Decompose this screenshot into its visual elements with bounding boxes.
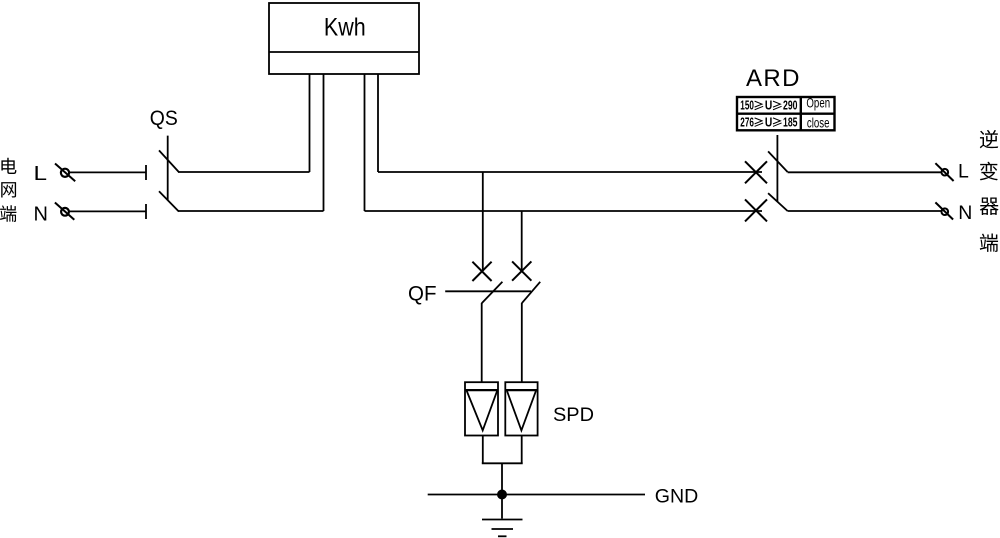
svg-text:QS: QS (150, 107, 178, 130)
svg-text:close: close (807, 114, 830, 130)
svg-text:Kwh: Kwh (324, 14, 366, 42)
svg-text:N: N (34, 203, 48, 225)
svg-text:N: N (958, 202, 972, 224)
svg-text:290: 290 (783, 99, 798, 113)
svg-text:U: U (765, 116, 772, 130)
svg-text:QF: QF (408, 283, 437, 306)
svg-text:276: 276 (740, 116, 754, 130)
svg-text:SPD: SPD (553, 405, 594, 426)
svg-text:150: 150 (740, 99, 754, 113)
svg-text:185: 185 (783, 116, 798, 130)
svg-text:L: L (34, 163, 48, 185)
svg-text:U: U (765, 99, 772, 113)
svg-text:ARD: ARD (746, 65, 800, 92)
svg-text:L: L (958, 161, 969, 183)
svg-text:GND: GND (655, 485, 699, 507)
svg-text:Open: Open (806, 95, 830, 111)
